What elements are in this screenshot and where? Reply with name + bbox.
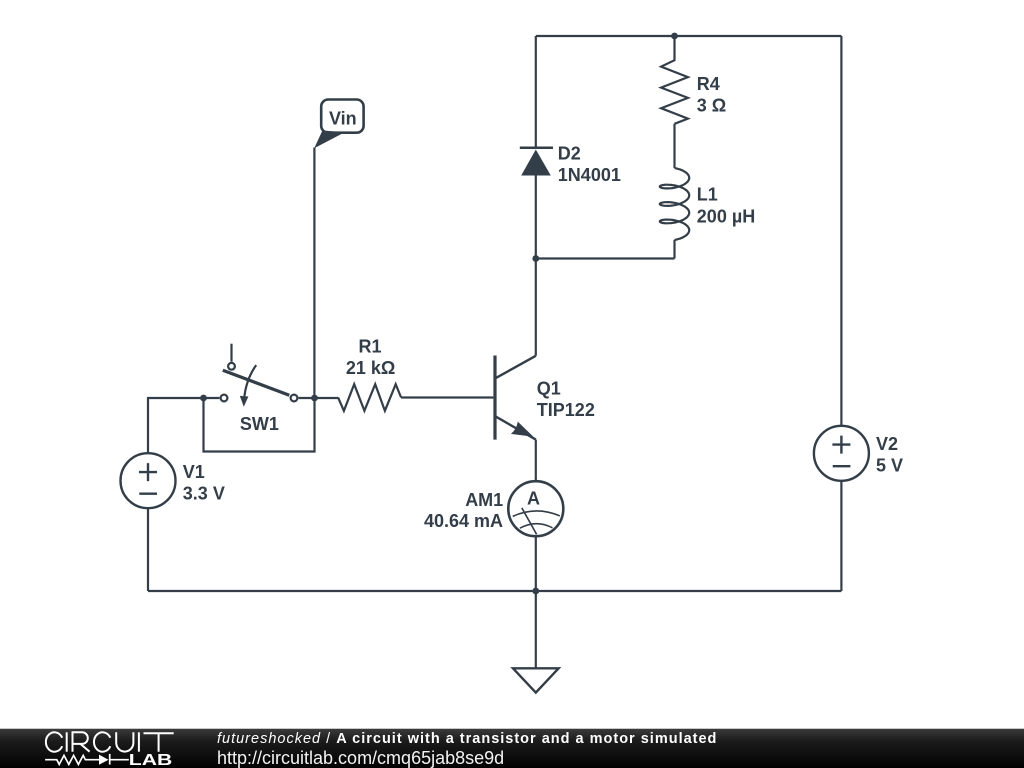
wire bottom rail <box>148 590 841 592</box>
wire top rail <box>536 35 842 37</box>
footer url text <box>217 748 917 767</box>
svg-text:Vin: Vin <box>329 109 357 129</box>
ground <box>513 591 559 693</box>
svg-text:V2: V2 <box>876 434 898 454</box>
wire V2 to bottom rail <box>840 481 842 591</box>
node junction Vin / R1 <box>311 395 318 402</box>
svg-text:200 µH: 200 µH <box>697 206 755 226</box>
svg-text:V1: V1 <box>183 462 205 482</box>
wire bypass loop under SW1 <box>204 398 315 452</box>
svg-text:3 Ω: 3 Ω <box>697 95 726 115</box>
wire V1 bottom to rail <box>147 508 149 591</box>
svg-text:AM1: AM1 <box>465 490 503 510</box>
svg-text:A: A <box>527 488 540 508</box>
inductor L1 <box>660 124 755 259</box>
svg-text:D2: D2 <box>558 143 581 163</box>
svg-text:L1: L1 <box>697 185 718 205</box>
svg-text:LAB: LAB <box>129 752 173 768</box>
footer bar <box>0 728 1024 768</box>
diode D2 <box>520 143 621 258</box>
wire D2 branch top <box>535 36 537 147</box>
wire node to L1 bottom <box>536 257 675 259</box>
node bottom rail / ground <box>532 588 539 595</box>
wire right side (top rail to V2) <box>840 36 842 425</box>
resistor R1 <box>338 337 401 411</box>
switch SW1 <box>221 344 298 434</box>
svg-text:21 kΩ: 21 kΩ <box>346 358 395 378</box>
wire ammeter to bottom rail <box>535 536 537 591</box>
svg-text:5 V: 5 V <box>876 455 903 475</box>
svg-text:TIP122: TIP122 <box>537 400 595 420</box>
transistor Q1 <box>495 356 595 440</box>
svg-text:SW1: SW1 <box>240 414 279 434</box>
wire Q1 emitter to ammeter <box>535 440 537 482</box>
CircuitLab logo <box>40 728 180 768</box>
net flag Vin <box>314 100 363 149</box>
svg-text:R1: R1 <box>359 337 382 357</box>
wire V1 top to switch node <box>148 398 219 453</box>
svg-text:Q1: Q1 <box>537 379 561 399</box>
footer title text <box>217 731 917 747</box>
node collector / D2 / L1 <box>532 255 539 262</box>
node junction left of SW1 <box>200 395 207 402</box>
resistor R4 <box>661 36 726 124</box>
voltage source V2 <box>814 426 903 481</box>
svg-text:R4: R4 <box>697 74 720 94</box>
wire Vin net flag down to node <box>313 148 315 399</box>
svg-text:3.3 V: 3.3 V <box>183 484 225 504</box>
ammeter AM1 <box>424 481 563 536</box>
wire SW1 right terminal to R1 <box>299 397 339 399</box>
node top rail / R4 <box>671 33 678 40</box>
svg-text:1N4001: 1N4001 <box>558 165 621 185</box>
svg-text:40.64 mA: 40.64 mA <box>424 511 503 531</box>
voltage source V1 <box>121 453 225 508</box>
wire Q1 collector up to node <box>535 259 537 356</box>
wire R1 to Q1 base <box>401 396 493 398</box>
